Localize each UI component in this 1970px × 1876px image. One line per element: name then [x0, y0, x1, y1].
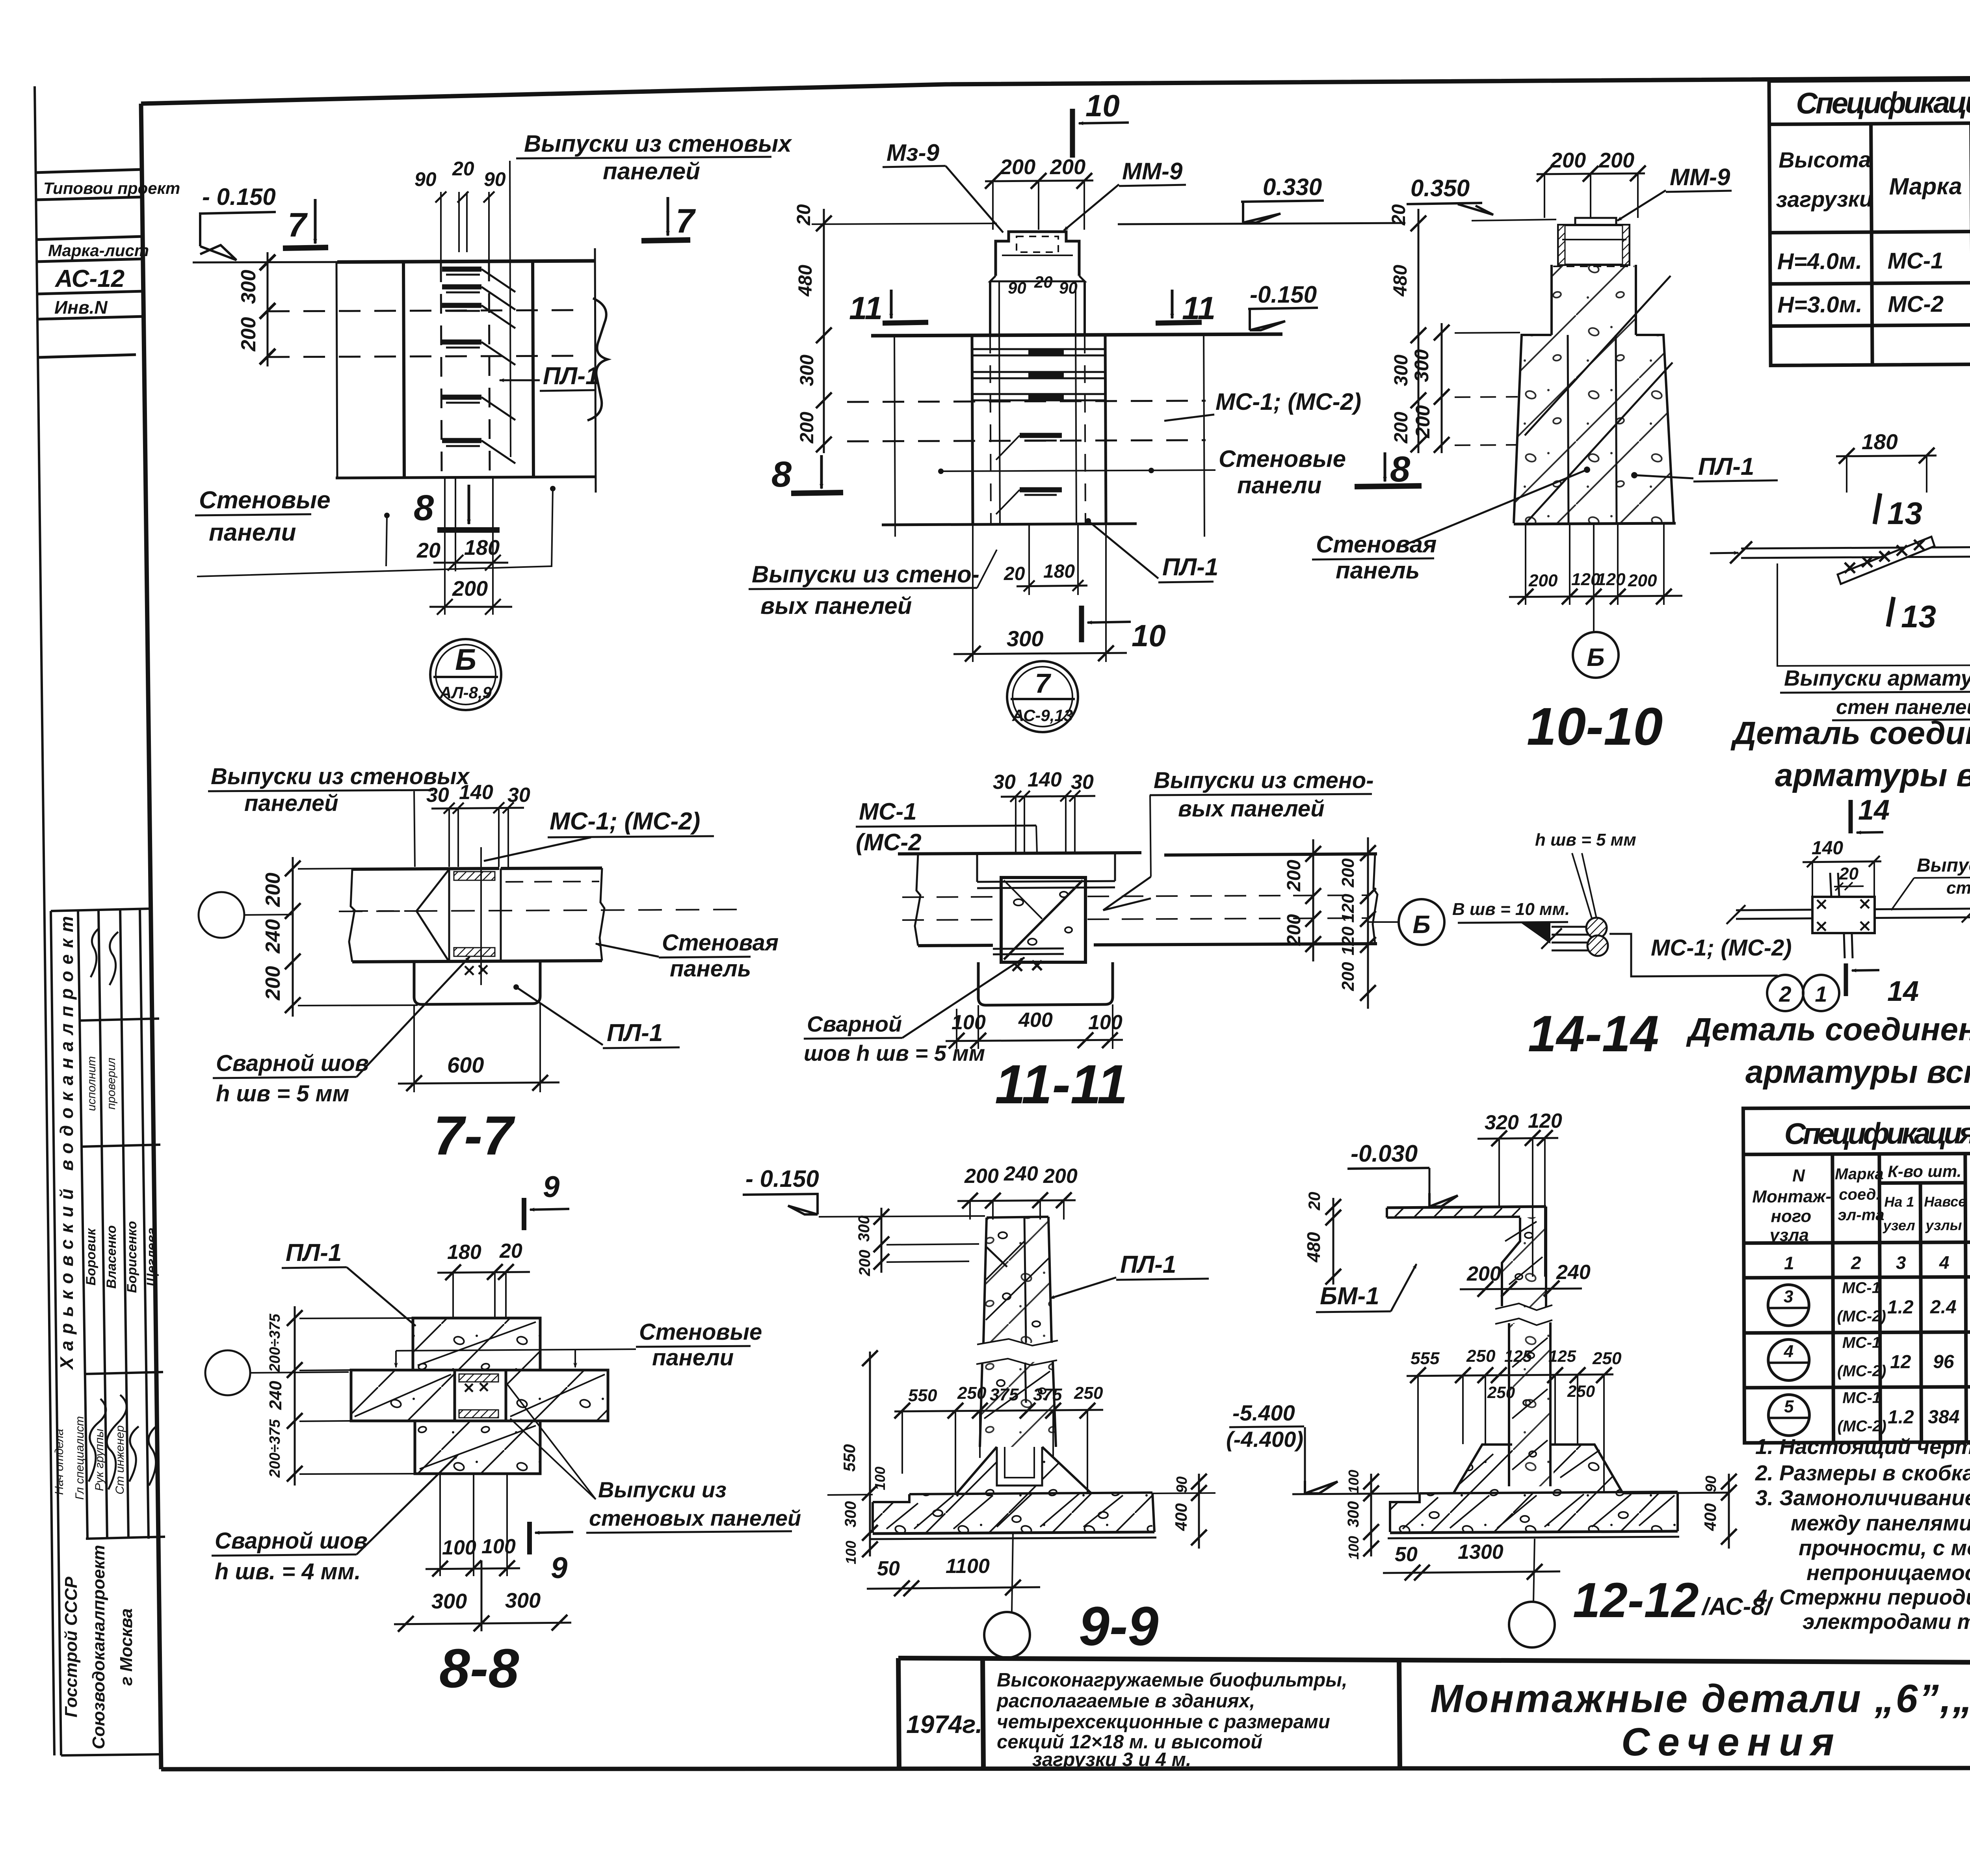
svg-text:300: 300	[505, 1589, 541, 1612]
svg-text:1. Настоящий чертеж рассматрив: 1. Настоящий чертеж рассматривать совмес…	[1755, 1434, 1970, 1459]
section marker 10 (top)	[1070, 109, 1075, 158]
bottom panel	[415, 1421, 540, 1474]
signature scribbles	[89, 928, 158, 1489]
joint chamfer on left panel	[416, 869, 449, 962]
svg-text:узел: узел	[1882, 1217, 1915, 1233]
svg-text:30: 30	[426, 784, 449, 807]
foundation socket and haunches	[997, 1447, 1042, 1486]
svg-text:100: 100	[1346, 1536, 1362, 1560]
svg-text:Власенко: Власенко	[104, 1225, 119, 1289]
svg-text:Рук группы: Рук группы	[93, 1429, 106, 1491]
svg-text:Борисенко: Борисенко	[125, 1221, 139, 1293]
svg-text:Б: Б	[1412, 910, 1430, 939]
svg-text:11-11: 11-11	[995, 1053, 1128, 1115]
svg-text:МС-2: МС-2	[1888, 291, 1944, 317]
svg-text:240: 240	[262, 919, 284, 954]
svg-text:250: 250	[1567, 1382, 1595, 1400]
left stamp column top cells	[36, 169, 144, 357]
svg-text:(МС-2): (МС-2)	[1837, 1362, 1886, 1380]
svg-text:250: 250	[1074, 1383, 1103, 1403]
outer page edge line	[35, 86, 54, 1755]
svg-text:10: 10	[1085, 88, 1120, 123]
svg-text:12-12: 12-12	[1573, 1573, 1699, 1628]
svg-text:140: 140	[1028, 768, 1062, 791]
svg-text:Щеглева: Щеглева	[144, 1227, 159, 1286]
svg-text:140: 140	[1812, 838, 1843, 859]
right dim chain 20/480/300/200	[1418, 209, 1420, 453]
svg-text:АС-12: АС-12	[54, 265, 125, 292]
svg-text:200: 200	[797, 412, 818, 444]
svg-text:Выпуски арматуры из: Выпуски арматуры из	[1917, 855, 1970, 876]
section marker 9 (bottom)	[527, 1522, 532, 1554]
svg-text:МС-1: МС-1	[1887, 248, 1943, 274]
foundation haunches	[1454, 1445, 1512, 1493]
svg-text:проверил: проверил	[105, 1058, 118, 1110]
svg-text:панели: панели	[652, 1345, 734, 1370]
svg-text:200: 200	[1338, 858, 1358, 888]
svg-text:ПЛ-1: ПЛ-1	[1698, 453, 1754, 480]
svg-text:/АС-8/: /АС-8/	[1701, 1593, 1774, 1620]
svg-text:Монтаж-: Монтаж-	[1752, 1187, 1831, 1207]
panel edges	[336, 262, 337, 478]
svg-text:панелей: панелей	[244, 790, 338, 816]
svg-text:Нач отдела: Нач отдела	[53, 1429, 66, 1495]
wall bottom line	[882, 524, 1137, 525]
svg-text:электродами типа Э-42 ГОСТ: электродами типа Э-42 ГОСТ 9467-60.	[1803, 1609, 1970, 1634]
svg-text:панель: панель	[670, 956, 751, 982]
column shaft	[989, 281, 991, 336]
svg-text:300: 300	[1411, 349, 1433, 382]
svg-text:3: 3	[1784, 1287, 1793, 1306]
svg-text:Сварной шов: Сварной шов	[216, 1050, 369, 1076]
svg-text:Сварной шов: Сварной шов	[215, 1528, 368, 1554]
svg-text:200: 200	[1284, 914, 1305, 946]
svg-text:120: 120	[1338, 894, 1358, 923]
svg-text:2. Размеры в скобках даны для: 2. Размеры в скобках даны для высоты заг…	[1755, 1461, 1970, 1485]
svg-text:- 0.150: - 0.150	[202, 184, 276, 210]
svg-text:7-7: 7-7	[433, 1104, 515, 1166]
wall top line	[898, 853, 1141, 854]
svg-text:1: 1	[1815, 982, 1827, 1006]
marker 13 top	[1875, 493, 1880, 524]
center line	[480, 847, 482, 985]
svg-text:Сварной: Сварной	[807, 1011, 902, 1036]
svg-text:панелей: панелей	[603, 158, 700, 184]
svg-text:Госстрой СССР: Госстрой СССР	[61, 1577, 81, 1718]
svg-text:Стеновые: Стеновые	[199, 487, 331, 514]
svg-text:300: 300	[1007, 626, 1043, 651]
svg-text:20: 20	[1004, 563, 1025, 584]
svg-text:ПЛ-1: ПЛ-1	[543, 363, 599, 390]
svg-text:Б: Б	[455, 643, 476, 677]
svg-text:МС-1; (МС-2): МС-1; (МС-2)	[550, 808, 700, 835]
svg-text:9: 9	[551, 1551, 567, 1585]
svg-text:600: 600	[447, 1052, 484, 1077]
svg-text:вых панелей: вых панелей	[1178, 796, 1325, 822]
svg-text:МС-1: МС-1	[859, 798, 917, 825]
description text	[996, 1670, 1347, 1770]
svg-text:(-4.400): (-4.400)	[1226, 1427, 1303, 1452]
marker 13 bottom	[1888, 597, 1894, 627]
wall top line	[871, 334, 1282, 336]
callout circle (empty)	[199, 892, 244, 938]
wall bottom lines	[918, 945, 993, 946]
left dim chain 200/240/200	[292, 857, 294, 1017]
svg-text:3. Замоноличивание панелей в п: 3. Замоноличивание панелей в пазу днища …	[1755, 1486, 1970, 1510]
svg-text:Выпуски арматуры: Выпуски арматуры	[1784, 666, 1970, 690]
callout circle Б/АЛ-8,9	[430, 639, 501, 710]
svg-text:-0.030: -0.030	[1351, 1140, 1418, 1167]
svg-text:480: 480	[795, 265, 816, 297]
svg-text:200: 200	[1550, 149, 1586, 172]
svg-text:1: 1	[1784, 1253, 1794, 1273]
svg-text:7: 7	[288, 206, 308, 244]
svg-text:4: 4	[1783, 1342, 1793, 1361]
svg-text:550: 550	[840, 1444, 859, 1472]
wall lower	[1508, 1323, 1510, 1486]
floor line left	[1292, 1493, 1420, 1494]
svg-text:h шв. = 4 мм.: h шв. = 4 мм.	[215, 1559, 361, 1584]
svg-text:3: 3	[1896, 1252, 1906, 1273]
svg-text:1100: 1100	[946, 1555, 990, 1578]
svg-text:180: 180	[1862, 429, 1898, 454]
svg-text:четырехсекционные с размерами: четырехсекционные с размерами	[997, 1711, 1330, 1733]
svg-text:К-во шт.: К-во шт.	[1888, 1162, 1961, 1181]
svg-text:1300: 1300	[1458, 1541, 1504, 1564]
svg-text:200: 200	[1391, 412, 1412, 444]
svg-text:240: 240	[1004, 1162, 1038, 1185]
joint verticals	[448, 869, 450, 962]
left dim chain 20/480/300/200	[823, 209, 825, 453]
svg-text:10-10: 10-10	[1527, 697, 1663, 756]
svg-text:Ст инженер: Ст инженер	[113, 1425, 126, 1494]
joint box	[1812, 897, 1875, 933]
svg-text:2: 2	[1851, 1253, 1861, 1273]
column neck	[1552, 265, 1636, 335]
svg-text:100: 100	[872, 1467, 888, 1490]
svg-text:Гл специалист: Гл специалист	[73, 1416, 86, 1500]
svg-text:Выпуски из: Выпуски из	[598, 1477, 727, 1502]
svg-text:исполнит: исполнит	[85, 1056, 98, 1111]
callout circle Б	[1593, 524, 1595, 632]
svg-text:Мз-9: Мз-9	[886, 139, 940, 166]
svg-text:загрузки: загрузки	[1776, 186, 1873, 212]
svg-text:9: 9	[543, 1170, 559, 1204]
svg-text:h шв = 5 мм: h шв = 5 мм	[216, 1081, 349, 1106]
svg-text:12: 12	[1890, 1352, 1911, 1372]
svg-text:узлы: узлы	[1925, 1217, 1962, 1233]
foundation concrete fill	[1454, 1445, 1512, 1493]
left dim chain	[294, 1306, 296, 1486]
svg-text:120: 120	[1338, 926, 1358, 956]
callout circle Б	[1367, 921, 1398, 923]
right dims 90 400	[1198, 1474, 1200, 1549]
svg-text:13: 13	[1887, 496, 1922, 531]
svg-text:200: 200	[1043, 1165, 1078, 1188]
breaks	[915, 854, 920, 946]
svg-text:8: 8	[771, 454, 792, 495]
svg-text:90: 90	[1008, 279, 1026, 297]
svg-text:Инв.N: Инв.N	[54, 297, 108, 318]
svg-text:стен панелей: стен панелей	[1946, 878, 1970, 898]
dashed panel joints	[847, 401, 1206, 402]
spec table connecting elements (right lower)	[1743, 1105, 1970, 1443]
svg-text:96: 96	[1933, 1352, 1954, 1372]
svg-text:30: 30	[1071, 771, 1094, 794]
floor line right	[1622, 1493, 1729, 1493]
svg-text:Стеновая: Стеновая	[662, 930, 779, 956]
svg-text:550: 550	[908, 1386, 937, 1405]
svg-text:250: 250	[1592, 1349, 1622, 1368]
panel ПЛ-1 below	[414, 962, 540, 1004]
svg-text:Навсе: Навсе	[1924, 1194, 1966, 1210]
svg-text:0.330: 0.330	[1263, 174, 1322, 200]
svg-text:вых панелей: вых панелей	[760, 593, 912, 619]
marker 14 top	[1849, 800, 1853, 833]
svg-text:Выпуски из стеновых: Выпуски из стеновых	[524, 130, 792, 157]
svg-text:120: 120	[1596, 570, 1626, 589]
right panel	[506, 1370, 608, 1421]
svg-text:100: 100	[1088, 1011, 1123, 1034]
svg-text:100: 100	[481, 1535, 516, 1558]
svg-text:Стеновая: Стеновая	[1316, 531, 1437, 558]
svg-text:ММ-9: ММ-9	[1670, 164, 1730, 190]
svg-text:непроницаемостью В-Б.: непроницаемостью В-Б.	[1806, 1560, 1970, 1585]
svg-text:2: 2	[1779, 982, 1791, 1006]
svg-text:МС-1: МС-1	[1842, 1389, 1881, 1406]
column upper part	[983, 1217, 1052, 1343]
svg-text:11: 11	[849, 290, 883, 326]
svg-text:Н=4.0м.: Н=4.0м.	[1777, 248, 1862, 274]
svg-text:200: 200	[1628, 571, 1657, 590]
svg-text:МС-1; (МС-2): МС-1; (МС-2)	[1651, 935, 1792, 961]
svg-text:20: 20	[794, 204, 814, 226]
svg-text:30: 30	[507, 784, 530, 807]
extension box	[1777, 546, 1970, 666]
right dims 90 400	[1728, 1474, 1730, 1549]
bar end ticks and arrows	[1730, 541, 1752, 563]
rebar group	[1552, 926, 1590, 928]
svg-text:между панелями предусматривает: между панелями предусматривается бетоном…	[1791, 1511, 1970, 1535]
svg-text:8: 8	[414, 488, 434, 528]
svg-text:300: 300	[797, 355, 818, 386]
bottom plate with welds	[993, 948, 1064, 949]
svg-text:200: 200	[1412, 405, 1434, 439]
lower lobe panel	[978, 962, 1113, 1005]
svg-text:Спецификация стали на 1 штук: Спецификация стали на 1 штуку каждой мар…	[1796, 83, 1970, 120]
svg-text:4: 4	[1939, 1252, 1950, 1273]
svg-text:Б: Б	[1587, 643, 1604, 671]
column lower part	[980, 1362, 1056, 1447]
svg-text:50: 50	[877, 1557, 900, 1580]
column bottom	[1514, 523, 1676, 524]
column body (widening)	[1514, 335, 1674, 523]
svg-text:Спецификация соединительных: Спецификация соединительных элементов	[1784, 1115, 1970, 1151]
svg-text:100: 100	[843, 1541, 859, 1564]
svg-text:панели: панели	[209, 519, 296, 546]
svg-text:555: 555	[1411, 1349, 1440, 1368]
connector line to nodes	[1609, 934, 1778, 976]
left dims 100 300 100	[1370, 1474, 1372, 1556]
svg-text:панели: панели	[1237, 472, 1321, 498]
svg-text:арматуры внахлестку: арматуры внахлестку	[1775, 757, 1970, 793]
svg-text:200: 200	[1284, 860, 1305, 892]
node circles 2 1	[1767, 975, 1803, 1011]
svg-text:20: 20	[499, 1240, 522, 1262]
svg-text:200: 200	[964, 1165, 999, 1188]
svg-text:480: 480	[1390, 265, 1411, 297]
svg-text:90: 90	[1059, 279, 1078, 297]
svg-text:стеновых панелей: стеновых панелей	[589, 1506, 801, 1530]
svg-text:2.4: 2.4	[1930, 1297, 1957, 1318]
svg-text:Стеновые: Стеновые	[1219, 446, 1346, 472]
svg-text:200: 200	[1528, 571, 1558, 590]
dim chain 300/200	[267, 252, 269, 366]
plate bands top	[977, 881, 1115, 882]
svg-text:1974г.: 1974г.	[906, 1710, 982, 1738]
svg-text:загрузки 3 и 4 м.: загрузки 3 и 4 м.	[1032, 1749, 1191, 1770]
svg-text:14: 14	[1858, 794, 1890, 826]
svg-text:Н=3.0м.: Н=3.0м.	[1777, 292, 1862, 318]
svg-text:13: 13	[1901, 599, 1936, 634]
center line and circle	[1533, 1539, 1535, 1602]
wall upper	[1502, 1218, 1520, 1306]
svg-text:200: 200	[452, 577, 488, 601]
svg-text:140: 140	[459, 781, 493, 804]
central column square	[1001, 878, 1085, 962]
svg-text:400: 400	[1172, 1503, 1190, 1531]
svg-text:300: 300	[431, 1590, 467, 1613]
svg-text:г Москва: г Москва	[117, 1608, 136, 1686]
svg-text:180: 180	[1043, 561, 1075, 582]
foundation concrete fill	[873, 1447, 1152, 1532]
svg-text:125: 125	[1548, 1347, 1576, 1365]
svg-text:200÷375: 200÷375	[267, 1419, 283, 1478]
wall top line	[193, 262, 337, 262]
svg-text:шов h шв = 5 мм: шов h шв = 5 мм	[804, 1041, 985, 1065]
svg-text:Стеновые: Стеновые	[639, 1319, 762, 1345]
svg-text:На 1: На 1	[1884, 1194, 1914, 1210]
title block	[898, 1658, 1970, 1769]
floor lines	[827, 1495, 873, 1495]
svg-text:20: 20	[1034, 273, 1053, 291]
svg-text:100: 100	[1346, 1470, 1362, 1493]
svg-text:N: N	[1792, 1166, 1805, 1185]
concrete fill	[1514, 265, 1674, 523]
leader to Выпуски label	[510, 161, 511, 457]
callout circle	[205, 1350, 250, 1395]
svg-text:20: 20	[1388, 204, 1409, 226]
svg-text:(МС-2): (МС-2)	[1837, 1307, 1886, 1325]
svg-text:АЛ-8,9: АЛ-8,9	[439, 683, 492, 702]
svg-text:Высота: Высота	[1779, 147, 1871, 172]
dashed level lines	[268, 310, 575, 311]
svg-text:50: 50	[1395, 1543, 1418, 1566]
weld plates	[454, 872, 495, 880]
notes list	[1755, 1434, 1970, 1634]
svg-text:ПЛ-1: ПЛ-1	[1162, 554, 1218, 581]
svg-text:384: 384	[1928, 1407, 1959, 1428]
node row 3 left	[1768, 1285, 1809, 1326]
svg-text:180: 180	[464, 536, 500, 560]
wall outer verticals	[972, 336, 973, 525]
top panel	[413, 1318, 540, 1370]
svg-text:250: 250	[1466, 1346, 1496, 1366]
spec table steel (top right)	[1769, 76, 1970, 365]
svg-text:h шв = 5 мм: h шв = 5 мм	[1535, 830, 1636, 850]
svg-text:20: 20	[416, 539, 440, 562]
svg-text:ного: ного	[1771, 1207, 1811, 1226]
svg-text:ПЛ-1: ПЛ-1	[607, 1019, 663, 1047]
svg-text:Марка: Марка	[1889, 173, 1962, 200]
svg-text:200: 200	[1050, 155, 1085, 179]
left dims 300/200	[1441, 323, 1443, 453]
rebar outlets with welds	[442, 267, 481, 272]
svg-text:200: 200	[1466, 1262, 1501, 1285]
upper left dims 300 200	[881, 1208, 883, 1273]
svg-text:7: 7	[676, 202, 696, 240]
svg-text:300: 300	[1391, 355, 1412, 386]
break marks	[1495, 1303, 1552, 1310]
svg-text:9-9: 9-9	[1079, 1595, 1158, 1657]
svg-text:90: 90	[484, 168, 506, 190]
svg-text:-0.150: -0.150	[1250, 281, 1317, 308]
svg-text:Типовои проект: Типовои проект	[43, 179, 180, 197]
svg-text:200: 200	[237, 317, 260, 352]
break between column parts	[977, 1339, 1058, 1346]
svg-text:ММ-9: ММ-9	[1122, 158, 1183, 184]
dashed hidden lines right panel	[506, 881, 599, 882]
svg-text:БМ-1: БМ-1	[1320, 1283, 1379, 1310]
svg-text:Марка: Марка	[1835, 1165, 1884, 1182]
svg-text:Марка-лист: Марка-лист	[48, 241, 149, 260]
marker 14 bottom	[1844, 963, 1848, 996]
svg-text:90: 90	[1703, 1476, 1719, 1492]
svg-text:0.350: 0.350	[1411, 175, 1470, 201]
svg-text:120: 120	[1528, 1110, 1562, 1132]
svg-text:панель: панель	[1336, 557, 1420, 584]
svg-text:МС-1: МС-1	[1842, 1334, 1881, 1351]
svg-text:320: 320	[1485, 1111, 1519, 1134]
svg-text:Выпуски из стено-: Выпуски из стено-	[752, 561, 979, 588]
svg-text:300: 300	[1345, 1501, 1362, 1528]
svg-text:7: 7	[1035, 668, 1052, 699]
svg-text:Деталь соединения выпусков: Деталь соединения выпусков	[1730, 715, 1970, 751]
svg-text:200: 200	[262, 873, 284, 907]
svg-text:8-8: 8-8	[439, 1637, 519, 1699]
svg-text:арматуры встык: арматуры встык	[1745, 1054, 1970, 1090]
connector ММ-9 top piece	[996, 232, 1079, 276]
svg-text:эл-та: эл-та	[1838, 1206, 1884, 1223]
svg-text:ПЛ-1: ПЛ-1	[1120, 1251, 1176, 1278]
svg-text:400: 400	[1018, 1009, 1053, 1032]
svg-text:90: 90	[414, 168, 437, 190]
svg-text:300: 300	[842, 1501, 859, 1528]
svg-text:200: 200	[1598, 149, 1634, 172]
svg-text:20: 20	[1305, 1192, 1323, 1211]
column top plate	[1575, 218, 1616, 225]
svg-text:Боровик: Боровик	[84, 1228, 98, 1286]
svg-text:узла: узла	[1769, 1225, 1809, 1245]
svg-text:1.2: 1.2	[1887, 1297, 1914, 1318]
svg-text:30: 30	[993, 771, 1016, 794]
svg-text:- 0.150: - 0.150	[745, 1166, 819, 1192]
svg-text:180: 180	[447, 1241, 481, 1264]
svg-text:5: 5	[1784, 1397, 1794, 1416]
svg-text:200÷375: 200÷375	[267, 1313, 283, 1372]
svg-text:прочности, с морозостойкостью: прочности, с морозостойкостью Мрз-150и в…	[1799, 1536, 1970, 1560]
left dims 550 100 300 100	[869, 1352, 871, 1556]
